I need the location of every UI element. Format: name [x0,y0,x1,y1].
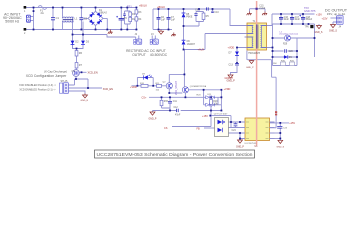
svg-text:GND-TP5: GND-TP5 [304,9,316,13]
svg-text:XCD Configuration Jumper: XCD Configuration Jumper [26,74,67,78]
svg-text:15V, up to 4A: 15V, up to 4A [327,12,346,16]
svg-text:FB: FB [197,128,201,131]
svg-text:GBU4J: GBU4J [99,12,108,15]
svg-text:XCD ENABLED Position (2-1) ->: XCD ENABLED Position (2-1) -> [19,88,56,91]
svg-text:2.2nF: 2.2nF [259,8,265,10]
svg-text:1uF: 1uF [161,18,166,21]
svg-text:C1: C1 [56,16,60,20]
svg-text:CS+: CS+ [142,97,147,100]
svg-text:R15: R15 [164,101,169,103]
svg-text:22uF: 22uF [295,19,301,21]
svg-text:P6KE: P6KE [186,16,193,19]
svg-text:(Snubber Optional): (Snubber Optional) [280,33,299,36]
svg-text:OUTPUT: OUTPUT [132,53,146,57]
svg-text:+VDD: +VDD [224,88,231,91]
svg-text:1N4937: 1N4937 [187,43,196,46]
svg-text:CS: CS [164,127,168,130]
svg-text:C13: C13 [229,63,234,66]
svg-text:+VDD: +VDD [130,86,137,89]
svg-text:VDD_START: VDD_START [175,80,178,95]
svg-text:GND_P: GND_P [236,147,244,149]
svg-text:C10: C10 [214,11,219,14]
svg-text:22uF: 22uF [284,19,290,21]
svg-text:C12: C12 [174,107,179,109]
svg-text:TP1: TP1 [127,4,132,8]
svg-text:DNI: DNI [273,63,277,65]
svg-text:+AUX: +AUX [198,48,205,51]
svg-text:GND_S: GND_S [315,32,323,34]
svg-text:+BULK: +BULK [139,4,147,7]
svg-text:(X-Cap Discharge): (X-Cap Discharge) [44,69,67,73]
svg-text:GND_S: GND_S [329,31,337,33]
svg-text:+BULK: +BULK [157,6,165,9]
svg-text:1uF: 1uF [171,18,176,21]
svg-text:XCD_EN: XCD_EN [103,88,113,91]
svg-text:UCC28751EVM-053 Schematic Diag: UCC28751EVM-053 Schematic Diagram - Powe… [97,152,253,158]
svg-text:GND_S: GND_S [277,146,285,148]
svg-text:2A: 2A [41,11,44,15]
svg-text:XCD_EN: XCD_EN [88,72,98,75]
svg-text:50/60 Hz: 50/60 Hz [5,20,19,24]
svg-text:560uF: 560uF [306,19,313,21]
svg-text:U2 TCLT1007: U2 TCLT1007 [214,114,228,116]
svg-text:+15V: +15V [322,18,328,21]
svg-text:GND_E: GND_E [81,100,89,102]
svg-text:+15V: +15V [289,122,295,125]
svg-text:C2: C2 [84,16,88,20]
svg-text:GND_P: GND_P [225,77,234,80]
svg-text:Q3 MMBT2222A: Q3 MMBT2222A [190,85,207,88]
svg-text:GND_P: GND_P [149,119,157,121]
svg-text:C24: C24 [232,130,237,132]
svg-text:C20: C20 [289,51,294,53]
svg-text:750342878: 750342878 [248,52,261,55]
svg-text:40-500VDC: 40-500VDC [150,53,168,57]
svg-text:TP6: TP6 [305,27,310,29]
svg-text:47pF: 47pF [175,114,181,116]
svg-text:+15V: +15V [202,115,208,118]
svg-text:+VDD: +VDD [228,47,235,50]
svg-text:R29: R29 [283,44,288,46]
svg-text:XCD DISABLED Position (2-3) ->: XCD DISABLED Position (2-3) -> [19,84,56,87]
svg-text:GND_P: GND_P [246,67,254,69]
svg-text:+15V: +15V [316,13,322,16]
